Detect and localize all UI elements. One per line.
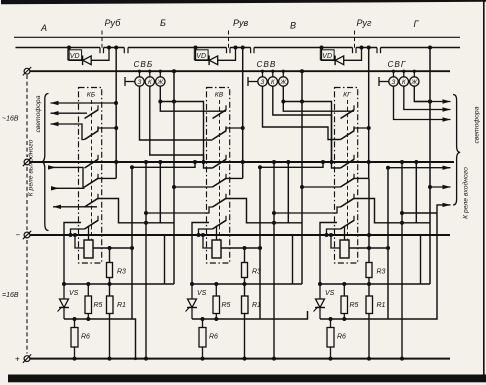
svg-text:R3: R3 <box>377 269 386 276</box>
svg-text:КГ: КГ <box>343 92 352 99</box>
svg-text:Ж: Ж <box>280 80 287 86</box>
svg-text:R6: R6 <box>81 334 90 341</box>
svg-text:R3: R3 <box>252 269 261 276</box>
svg-text:В: В <box>290 21 296 31</box>
svg-text:СВВ: СВВ <box>257 60 277 69</box>
svg-text:СВГ: СВГ <box>388 60 407 69</box>
svg-text:светофора: светофора <box>474 106 481 143</box>
svg-text:~16В: ~16В <box>2 116 19 123</box>
svg-text:VS: VS <box>325 290 335 297</box>
svg-text:светофора: светофора <box>35 95 42 132</box>
svg-text:−: − <box>16 231 21 240</box>
svg-text:Рув: Рув <box>233 18 249 28</box>
svg-text:R5: R5 <box>222 302 231 309</box>
svg-text:R1: R1 <box>377 302 386 309</box>
svg-text:+: + <box>15 355 20 364</box>
svg-text:R5: R5 <box>350 302 359 309</box>
svg-text:К: К <box>148 80 152 86</box>
svg-text:R6: R6 <box>209 334 218 341</box>
svg-text:З: З <box>138 80 142 86</box>
svg-text:R6: R6 <box>337 334 346 341</box>
svg-text:Руг: Руг <box>357 18 373 28</box>
svg-text:КВ: КВ <box>215 92 224 99</box>
svg-text:R1: R1 <box>117 302 126 309</box>
svg-text:Б: Б <box>160 18 166 28</box>
svg-text:Ж: Ж <box>157 80 164 86</box>
svg-text:З: З <box>392 80 396 86</box>
svg-text:К: К <box>402 80 406 86</box>
svg-text:VS: VS <box>197 290 207 297</box>
svg-text:VD: VD <box>322 53 332 60</box>
svg-text:КБ: КБ <box>87 92 96 99</box>
svg-text:З: З <box>261 80 265 86</box>
svg-text:R1: R1 <box>252 302 261 309</box>
svg-text:СВБ: СВБ <box>134 60 154 69</box>
svg-text:=16В: =16В <box>2 292 19 299</box>
svg-text:VD: VD <box>70 53 80 60</box>
svg-text:К: К <box>271 80 275 86</box>
svg-text:R5: R5 <box>94 302 103 309</box>
svg-text:R3: R3 <box>117 269 126 276</box>
svg-text:А: А <box>40 23 47 33</box>
svg-text:К реле входного: К реле входного <box>462 167 470 219</box>
svg-text:VD: VD <box>196 53 206 60</box>
svg-text:VS: VS <box>69 290 79 297</box>
svg-text:Руб: Руб <box>105 18 122 28</box>
svg-text:Ж: Ж <box>411 80 418 86</box>
svg-text:К реле выходного: К реле выходного <box>27 139 35 196</box>
